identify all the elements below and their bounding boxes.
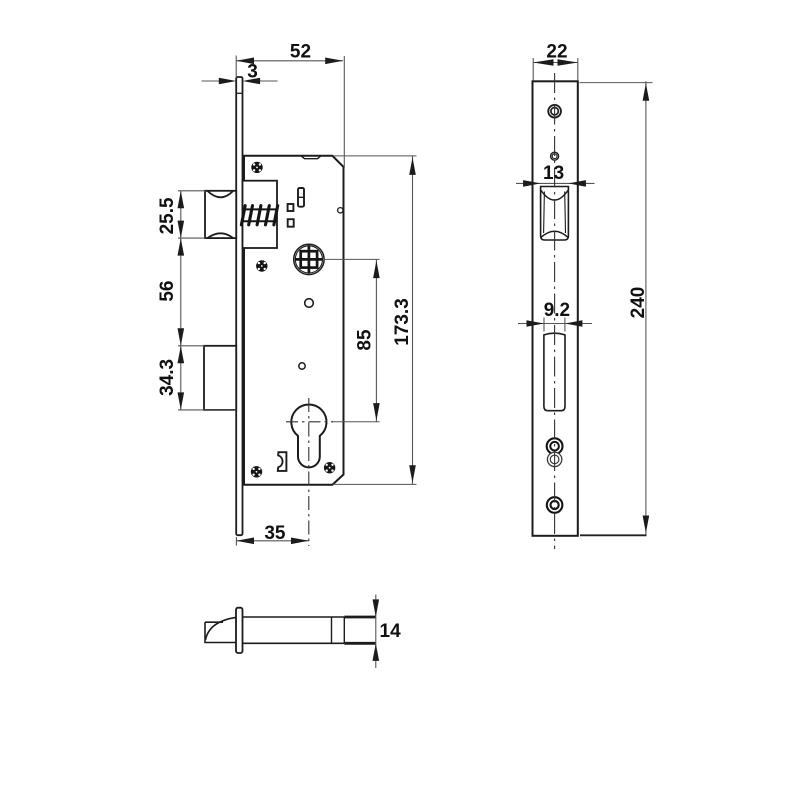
svg-text:22: 22 — [546, 41, 567, 62]
svg-text:85: 85 — [354, 329, 375, 351]
svg-text:25.5: 25.5 — [157, 197, 178, 234]
svg-text:240: 240 — [628, 287, 649, 319]
svg-text:13: 13 — [543, 163, 564, 184]
svg-text:35: 35 — [264, 523, 286, 544]
svg-text:14: 14 — [380, 621, 402, 642]
svg-text:3: 3 — [247, 62, 258, 83]
svg-text:173.3: 173.3 — [392, 298, 413, 346]
svg-text:9.2: 9.2 — [544, 300, 570, 321]
svg-text:34.3: 34.3 — [157, 359, 178, 396]
svg-text:56: 56 — [157, 281, 178, 302]
svg-text:52: 52 — [290, 42, 311, 63]
